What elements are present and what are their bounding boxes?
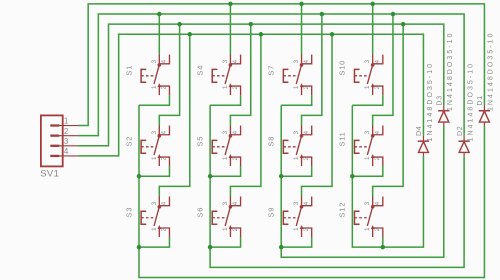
svg-text:S12: S12 bbox=[338, 202, 347, 218]
svg-text:2: 2 bbox=[303, 86, 310, 90]
diode D4 1N4148DO35-10 bbox=[416, 62, 434, 156]
svg-text:2: 2 bbox=[374, 156, 381, 160]
S2 pin 1 bbox=[158, 157, 160, 166]
wire S7 pin 3 riser to net A bbox=[301, 4, 303, 55]
S11 actuator dashed link bbox=[354, 146, 369, 148]
S8 pin 2 bbox=[302, 157, 312, 166]
S7 pin 4 bbox=[302, 55, 312, 64]
D1 anode triangle bbox=[479, 111, 489, 122]
wire S12 pin 3 riser with jog to net C bbox=[373, 24, 403, 196]
svg-text:2: 2 bbox=[161, 227, 168, 231]
S12 moving contact arrow bbox=[371, 225, 375, 229]
S7 moving contact arrow bbox=[300, 83, 304, 87]
svg-text:3: 3 bbox=[151, 60, 158, 64]
svg-text:D3: D3 bbox=[436, 95, 443, 106]
S3 lever contact bbox=[154, 207, 159, 226]
D4 cathode pin bbox=[422, 136, 424, 142]
svg-text:2: 2 bbox=[374, 86, 381, 90]
svg-text:3: 3 bbox=[222, 130, 229, 134]
S4 pin 1 bbox=[229, 86, 231, 95]
svg-text:S3: S3 bbox=[124, 207, 133, 218]
wire S2 pin 3 riser with jog to net C bbox=[159, 24, 179, 125]
S6 pin 4 bbox=[230, 196, 240, 205]
svg-text:3: 3 bbox=[364, 201, 371, 205]
wire S1 pin 2 drop to column chain bbox=[139, 95, 169, 105]
switch S4 (push button) bbox=[195, 55, 240, 96]
svg-text:4: 4 bbox=[303, 201, 310, 205]
svg-text:4: 4 bbox=[374, 60, 381, 64]
svg-text:4: 4 bbox=[232, 201, 239, 205]
S12 pin 3 bbox=[372, 196, 374, 206]
switch S3 (push button) bbox=[124, 196, 169, 237]
S9 pin 1 bbox=[301, 228, 303, 237]
switch S6 (push button) bbox=[195, 196, 240, 237]
S4 moving contact arrow bbox=[229, 83, 233, 87]
S1 actuator button bbox=[141, 69, 146, 82]
D4 cathode bar bbox=[418, 140, 429, 142]
S10 pin 3 junction dot bbox=[371, 63, 375, 67]
S9 pin 2 bbox=[302, 228, 312, 237]
S7 pin 3 junction dot bbox=[300, 63, 304, 67]
S10 pin 4 bbox=[373, 55, 383, 64]
S9 actuator dashed link bbox=[283, 217, 298, 219]
SV1 pin 4 bbox=[50, 155, 78, 157]
S5 pin 1 bbox=[229, 157, 231, 166]
svg-text:S1: S1 bbox=[124, 65, 133, 76]
S3 pin 4 bbox=[159, 196, 169, 205]
S4 actuator dashed link bbox=[212, 75, 227, 77]
S10 actuator dashed link bbox=[354, 75, 369, 77]
wire S10 pin 2 drop to column chain bbox=[352, 95, 382, 105]
svg-text:2: 2 bbox=[303, 227, 310, 231]
S8 pin 1 bbox=[301, 157, 303, 166]
S3 pin 2 bbox=[160, 228, 170, 237]
svg-text:SV1: SV1 bbox=[40, 169, 59, 180]
wire S7 pin 2 drop to column chain bbox=[281, 95, 311, 105]
S7 actuator dashed link bbox=[283, 75, 298, 77]
S2 pin 3 bbox=[158, 126, 160, 136]
S3 pin 3 bbox=[158, 196, 160, 206]
S7 actuator button bbox=[283, 69, 288, 82]
S10 actuator button bbox=[354, 69, 359, 82]
svg-text:1: 1 bbox=[364, 227, 371, 231]
S8 pin 4 bbox=[302, 126, 312, 135]
S6 moving contact arrow bbox=[229, 225, 233, 229]
D4 anode triangle bbox=[418, 142, 428, 153]
svg-text:2: 2 bbox=[161, 156, 168, 160]
S8 pin 3 bbox=[301, 126, 303, 136]
wire S4 pin 3 riser to net A bbox=[229, 4, 231, 55]
wire column 2 chain down and along bottom to diode D2 bbox=[210, 105, 464, 267]
svg-text:1: 1 bbox=[293, 227, 300, 231]
junction on net B at x=321.86 bbox=[320, 12, 325, 17]
svg-text:4: 4 bbox=[374, 201, 381, 205]
switch S8 (push button) bbox=[267, 126, 312, 167]
S2 moving contact arrow bbox=[158, 154, 162, 158]
S2 actuator button bbox=[141, 140, 146, 153]
svg-text:1N4148DO35-10: 1N4148DO35-10 bbox=[447, 31, 454, 111]
switch S12 (push button) bbox=[338, 196, 383, 237]
svg-text:4: 4 bbox=[232, 60, 239, 64]
S6 actuator button bbox=[212, 211, 217, 224]
junction column 3 chain row-3 bbox=[279, 245, 284, 250]
svg-text:S7: S7 bbox=[267, 65, 276, 76]
svg-text:4: 4 bbox=[161, 201, 168, 205]
S10 pin 3 bbox=[372, 55, 374, 65]
S6 pin 1 bbox=[229, 228, 231, 237]
svg-text:D1: D1 bbox=[477, 95, 484, 106]
svg-text:1: 1 bbox=[222, 227, 229, 231]
S4 pin 2 bbox=[231, 86, 241, 95]
junction on net A at x=230.42 bbox=[228, 2, 233, 7]
wire S5 pin 3 riser with jog to net C bbox=[230, 24, 250, 125]
junction on net C at x=179.62 bbox=[177, 22, 182, 27]
S5 moving contact arrow bbox=[229, 154, 233, 158]
S10 pin 2 bbox=[373, 86, 383, 95]
svg-text:4: 4 bbox=[303, 60, 310, 64]
S9 pin 3 bbox=[301, 196, 303, 206]
svg-text:3: 3 bbox=[222, 201, 229, 205]
wire net B from SV1 pin 2 along top bus to diode D2 bbox=[78, 14, 464, 136]
S9 pin 3 junction dot bbox=[300, 205, 304, 209]
S4 pin 3 bbox=[229, 55, 231, 65]
S1 pin 3 junction dot bbox=[158, 63, 162, 67]
wire column 3 chain down and along bottom to diode D3 bbox=[281, 105, 444, 257]
S1 lever contact bbox=[154, 65, 159, 84]
S2 pin 3 junction dot bbox=[158, 134, 162, 138]
S2 pin 2 bbox=[160, 157, 170, 166]
D2 cathode pin bbox=[463, 136, 465, 142]
svg-text:4: 4 bbox=[161, 130, 168, 134]
svg-text:S6: S6 bbox=[195, 207, 204, 218]
D1 cathode bar bbox=[479, 110, 490, 112]
wire S5 pin 2 drop to column chain bbox=[210, 166, 240, 176]
svg-text:4: 4 bbox=[303, 130, 310, 134]
D2 anode pin bbox=[463, 152, 465, 155]
junction column 2 chain row-3 bbox=[208, 245, 213, 250]
svg-text:4: 4 bbox=[232, 130, 239, 134]
wire S4 pin 2 drop to column chain bbox=[210, 95, 240, 105]
S7 pin 3 bbox=[301, 55, 303, 65]
S11 pin 1 bbox=[372, 157, 374, 166]
junction on net D at x=332.02 bbox=[330, 32, 335, 37]
S11 pin 3 junction dot bbox=[371, 134, 375, 138]
S3 actuator dashed link bbox=[141, 217, 156, 219]
S5 pin 3 bbox=[229, 126, 231, 136]
svg-text:3: 3 bbox=[364, 60, 371, 64]
S1 pin 3 bbox=[158, 55, 160, 65]
switch S9 (push button) bbox=[267, 196, 312, 237]
svg-text:2: 2 bbox=[232, 227, 239, 231]
D2 cathode bar bbox=[459, 140, 470, 142]
svg-text:2: 2 bbox=[303, 156, 310, 160]
svg-text:2: 2 bbox=[374, 227, 381, 231]
D3 cathode bar bbox=[438, 110, 449, 112]
wire S12 pin 2 drop to column chain bbox=[382, 237, 384, 247]
S2 actuator dashed link bbox=[141, 146, 156, 148]
S7 pin 2 bbox=[302, 86, 312, 95]
wire S6 pin 3 riser with jog to net D bbox=[230, 34, 260, 196]
junction column 4 chain row-2 bbox=[350, 174, 355, 179]
svg-text:4: 4 bbox=[64, 147, 69, 156]
svg-text:1: 1 bbox=[151, 85, 158, 89]
S4 actuator button bbox=[212, 69, 217, 82]
junction column 1 chain row-3 bbox=[137, 245, 142, 250]
D3 anode triangle bbox=[439, 111, 449, 122]
svg-text:S9: S9 bbox=[267, 207, 276, 218]
svg-text:2: 2 bbox=[232, 86, 239, 90]
S9 moving contact arrow bbox=[300, 225, 304, 229]
svg-text:S11: S11 bbox=[338, 131, 347, 146]
junction on net D at x=260.9 bbox=[259, 32, 264, 37]
svg-text:D2: D2 bbox=[457, 125, 464, 136]
junction on net D at x=189.78 bbox=[188, 32, 193, 37]
S2 lever contact bbox=[154, 136, 159, 155]
svg-text:1: 1 bbox=[364, 156, 371, 160]
S4 pin 3 junction dot bbox=[229, 63, 233, 67]
S11 pin 3 bbox=[372, 126, 374, 136]
junction on net B at x=392.98 bbox=[391, 12, 396, 17]
svg-text:1: 1 bbox=[151, 156, 158, 160]
S9 actuator button bbox=[283, 211, 288, 224]
S11 pin 2 bbox=[373, 157, 383, 166]
svg-text:1: 1 bbox=[222, 156, 229, 160]
S4 pin 4 bbox=[230, 55, 240, 64]
D3 anode pin bbox=[443, 122, 445, 125]
junction on net A at x=301.54 bbox=[299, 2, 304, 7]
svg-text:3: 3 bbox=[151, 201, 158, 205]
S3 moving contact arrow bbox=[158, 225, 162, 229]
svg-text:1: 1 bbox=[64, 117, 69, 126]
S8 actuator dashed link bbox=[283, 146, 298, 148]
junction column 2 chain row-2 bbox=[208, 174, 213, 179]
S1 pin 4 bbox=[159, 55, 169, 64]
S7 pin 1 bbox=[301, 86, 303, 95]
svg-text:1N4148DO35-10: 1N4148DO35-10 bbox=[427, 62, 434, 142]
D1 cathode pin bbox=[483, 105, 485, 111]
S8 moving contact arrow bbox=[300, 154, 304, 158]
diode D2 1N4148DO35-10 bbox=[457, 62, 475, 156]
S5 lever contact bbox=[225, 136, 230, 155]
S10 lever contact bbox=[367, 65, 372, 84]
svg-text:S8: S8 bbox=[267, 136, 276, 147]
switch S5 (push button) bbox=[195, 126, 240, 167]
svg-text:1N4148DO35-10: 1N4148DO35-10 bbox=[467, 62, 474, 142]
wire S9 pin 2 drop to column chain bbox=[281, 237, 311, 247]
S3 actuator button bbox=[141, 211, 146, 224]
svg-text:3: 3 bbox=[64, 137, 69, 146]
wire S3 pin 3 riser with jog to net D bbox=[159, 34, 189, 196]
S5 pin 4 bbox=[230, 126, 240, 135]
D2 anode triangle bbox=[459, 142, 469, 153]
switch S10 (push button) bbox=[338, 55, 383, 96]
S7 lever contact bbox=[296, 65, 301, 84]
svg-text:S5: S5 bbox=[195, 136, 204, 147]
S6 lever contact bbox=[225, 207, 230, 226]
S5 pin 3 junction dot bbox=[229, 134, 233, 138]
S11 pin 4 bbox=[373, 126, 383, 135]
junction on net A at x=372.66 bbox=[370, 2, 375, 7]
diode D1 1N4148DO35-10 bbox=[477, 31, 495, 125]
svg-text:2: 2 bbox=[64, 127, 69, 136]
svg-text:1: 1 bbox=[293, 156, 300, 160]
wire S8 pin 3 riser with jog to net B bbox=[302, 14, 322, 125]
wire S10 pin 3 riser to net A bbox=[372, 4, 374, 55]
S1 pin 1 bbox=[158, 86, 160, 95]
junction on net B at x=159.3 bbox=[157, 12, 162, 17]
svg-text:1: 1 bbox=[222, 85, 229, 89]
wire S11 pin 2 drop to column chain bbox=[352, 166, 382, 176]
S10 moving contact arrow bbox=[371, 83, 375, 87]
wire S11 pin 3 riser with jog to net B bbox=[373, 14, 393, 125]
S3 pin 1 bbox=[158, 228, 160, 237]
S8 lever contact bbox=[296, 136, 301, 155]
SV1 pin 3 bbox=[50, 145, 78, 147]
svg-text:1: 1 bbox=[364, 85, 371, 89]
svg-text:3: 3 bbox=[293, 130, 300, 134]
S11 moving contact arrow bbox=[371, 154, 375, 158]
svg-text:1N4148DO35-10: 1N4148DO35-10 bbox=[488, 31, 495, 111]
S3 pin 3 junction dot bbox=[158, 205, 162, 209]
S9 lever contact bbox=[296, 207, 301, 226]
switch S1 (push button) bbox=[124, 55, 169, 96]
wire net A from SV1 pin 1 along top bus to diode D1 bbox=[78, 4, 484, 126]
junction column 3 chain row-2 bbox=[279, 174, 284, 179]
svg-text:D4: D4 bbox=[416, 125, 423, 136]
S6 pin 2 bbox=[231, 228, 241, 237]
S1 pin 2 bbox=[160, 86, 170, 95]
SV1 pin 2 bbox=[50, 135, 78, 137]
S5 actuator dashed link bbox=[212, 146, 227, 148]
junction on net C at x=250.74 bbox=[248, 22, 253, 27]
S4 lever contact bbox=[225, 65, 230, 84]
wire net C from SV1 pin 3 along top bus to diode D3 bbox=[78, 24, 444, 146]
svg-text:3: 3 bbox=[151, 130, 158, 134]
S12 actuator dashed link bbox=[354, 217, 369, 219]
S8 pin 3 junction dot bbox=[300, 134, 304, 138]
S6 pin 3 junction dot bbox=[229, 205, 233, 209]
wire S3 pin 2 drop to column chain bbox=[139, 237, 169, 247]
S8 actuator button bbox=[283, 140, 288, 153]
S12 pin 2 bbox=[373, 228, 383, 237]
wire S6 pin 2 drop to column chain bbox=[210, 237, 240, 247]
wire column 1 chain down and along bottom to diode D1 bbox=[139, 105, 484, 277]
switch S11 (push button) bbox=[338, 126, 383, 167]
svg-text:S4: S4 bbox=[195, 65, 204, 76]
S12 pin 3 junction dot bbox=[371, 205, 375, 209]
S11 actuator button bbox=[354, 140, 359, 153]
svg-text:1: 1 bbox=[293, 85, 300, 89]
svg-text:3: 3 bbox=[293, 60, 300, 64]
wire S8 pin 2 drop to column chain bbox=[281, 166, 311, 176]
S2 pin 4 bbox=[159, 126, 169, 135]
S5 pin 2 bbox=[231, 157, 241, 166]
connector SV1 body bbox=[41, 115, 63, 166]
svg-text:4: 4 bbox=[161, 60, 168, 64]
S12 pin 4 bbox=[373, 196, 383, 205]
svg-text:S10: S10 bbox=[338, 60, 347, 76]
S6 actuator dashed link bbox=[212, 217, 227, 219]
S6 pin 3 bbox=[229, 196, 231, 206]
svg-text:4: 4 bbox=[374, 130, 381, 134]
S12 lever contact bbox=[367, 207, 372, 226]
SV1 pin 1 bbox=[50, 125, 78, 127]
S12 pin 1 bbox=[372, 228, 374, 237]
wire net D from SV1 pin 4 along top bus to diode D4 bbox=[78, 34, 423, 156]
S11 lever contact bbox=[367, 136, 372, 155]
svg-text:3: 3 bbox=[222, 60, 229, 64]
junction column 4 chain at S12 pin 2 bbox=[381, 245, 386, 250]
wire S1 pin 3 riser to net B bbox=[158, 14, 160, 55]
wire S9 pin 3 riser with jog to net D bbox=[302, 34, 332, 196]
switch S7 (push button) bbox=[267, 55, 312, 96]
svg-text:3: 3 bbox=[293, 201, 300, 205]
wire column 4 chain down and along bottom to diode D4 bbox=[352, 105, 423, 247]
svg-text:2: 2 bbox=[161, 86, 168, 90]
switch S2 (push button) bbox=[124, 126, 169, 167]
D1 anode pin bbox=[483, 122, 485, 125]
S9 pin 4 bbox=[302, 196, 312, 205]
wire S2 pin 2 drop to column chain bbox=[139, 166, 169, 176]
svg-text:3: 3 bbox=[364, 130, 371, 134]
D4 anode pin bbox=[422, 152, 424, 155]
S10 pin 1 bbox=[372, 86, 374, 95]
D3 cathode pin bbox=[443, 105, 445, 111]
junction column 1 chain row-2 bbox=[137, 174, 142, 179]
diode D3 1N4148DO35-10 bbox=[436, 31, 454, 125]
svg-text:S2: S2 bbox=[124, 136, 133, 147]
S1 moving contact arrow bbox=[158, 83, 162, 87]
S5 actuator button bbox=[212, 140, 217, 153]
junction on net C at x=403.14 bbox=[401, 22, 406, 27]
S1 actuator dashed link bbox=[141, 75, 156, 77]
svg-text:2: 2 bbox=[232, 156, 239, 160]
S12 actuator button bbox=[354, 211, 359, 224]
svg-text:1: 1 bbox=[151, 227, 158, 231]
